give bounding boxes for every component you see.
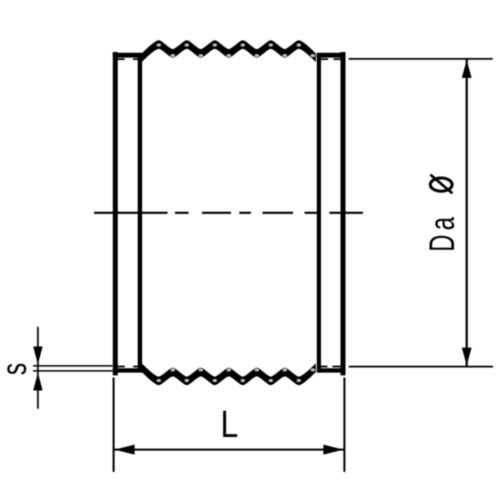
Da diameter label diameter symbol slash	[430, 175, 452, 194]
right collar top edge	[317, 53, 346, 58]
s dimension arrow lower (pointing up)	[33, 373, 42, 391]
corrugation top crest/valley seam dots	[157, 44, 315, 57]
corrugated wall top band	[142, 40, 316, 62]
hidden seam dashes top right	[317, 58, 344, 60]
Da dimension arrow bottom (pointing down)	[462, 348, 472, 366]
s dimension upper extension line (inner surface)	[33, 365, 113, 367]
left collar inner wall line	[138, 53, 142, 369]
corrugation bottom crest/valley seam dots	[157, 369, 315, 382]
L extension line left	[113, 378, 115, 472]
left collar top edge	[113, 53, 143, 58]
centerline (dash-dot axis)	[94, 212, 363, 214]
svg-text:s: s	[0, 363, 34, 375]
s dimension line vertical	[37, 327, 39, 409]
L extension line right	[343, 378, 345, 472]
left collar outer wall line	[113, 52, 118, 375]
Da dimension arrow top (pointing up)	[462, 60, 472, 78]
right collar outer wall line	[341, 52, 346, 375]
L dimension arrow left (pointing left)	[115, 445, 135, 455]
Da extension line top	[349, 58, 493, 60]
Da dimension line	[466, 59, 468, 367]
left collar bottom edge	[113, 368, 143, 372]
svg-text:L: L	[221, 404, 239, 446]
right collar inner wall line	[317, 53, 321, 369]
Da extension line bottom	[349, 366, 493, 368]
svg-text:a: a	[423, 217, 462, 231]
L dimension line	[114, 449, 345, 451]
corrugated wall bottom band	[142, 363, 316, 385]
svg-text:D: D	[423, 235, 462, 252]
right collar bottom edge	[317, 368, 346, 372]
s dimension lower extension line (outer surface)	[33, 370, 113, 372]
hidden seam dashes top left	[115, 58, 142, 60]
s dimension arrow upper (pointing down)	[33, 347, 42, 365]
Da diameter label diameter symbol circle	[430, 178, 452, 191]
hidden seam dashes bottom left	[115, 366, 140, 368]
hidden seam dashes bottom right	[317, 366, 340, 368]
L dimension arrow right (pointing right)	[323, 445, 343, 455]
